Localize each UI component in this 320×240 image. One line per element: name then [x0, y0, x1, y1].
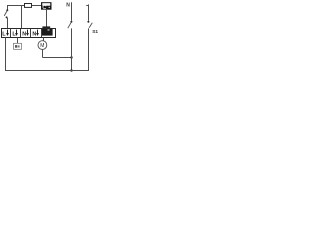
svg-text:M: M: [40, 43, 44, 49]
node switch S1 pole b upper: [87, 21, 89, 23]
fuse F1: [25, 4, 32, 8]
wire branch to terminal L2: [21, 6, 23, 29]
wire meter to plug cell: [46, 10, 48, 27]
wire bottom rail: [5, 70, 89, 72]
node switch Q upper terminal: [6, 9, 8, 11]
switch Q blade: [4, 11, 7, 16]
background: [0, 0, 100, 77]
plug P1 top bar: [42, 26, 50, 28]
control box A1: [14, 43, 22, 49]
node switch Q lower terminal: [6, 16, 8, 18]
arrow terminal 4: [37, 30, 39, 34]
svg-text:S1: S1: [92, 29, 98, 35]
svg-text:N: N: [66, 2, 70, 8]
plug P1 body (dark cell): [42, 29, 53, 36]
wire N rail upper: [71, 2, 73, 21]
arrow terminal 1: [7, 30, 9, 34]
wire L rail upper with stub: [86, 4, 88, 20]
wire top horizontal L feed: [7, 5, 41, 7]
meter U1 (dark device box): [41, 2, 52, 10]
meter U1 display window: [42, 3, 50, 6]
meter U1 dial glyph: [43, 5, 46, 8]
wire terminal 2 to control box: [17, 38, 19, 44]
svg-text:N: N: [22, 31, 26, 37]
arrow terminal 3: [27, 30, 29, 34]
control box A1 glyph: [15, 45, 17, 48]
wire riser from terminal 1 to bottom rail: [5, 38, 7, 71]
node switch S1 pole a upper: [70, 21, 72, 23]
wire motor to N rail: [43, 49, 72, 57]
wire terminal to motor: [43, 38, 45, 41]
terminal divider 1: [10, 29, 12, 38]
terminal divider 3: [30, 29, 32, 38]
switch S1 pole b blade: [89, 23, 92, 28]
svg-text:N: N: [32, 31, 36, 37]
arrow terminal 2: [16, 30, 18, 34]
terminal divider 2: [20, 29, 22, 38]
wire N rail lower: [71, 28, 73, 70]
terminal divider 4: [41, 29, 43, 38]
switch S1 pole a blade: [68, 22, 71, 28]
wire left rail lower: [7, 18, 9, 29]
node motor return joins N rail: [70, 56, 72, 58]
wire left rail upper: [7, 5, 9, 10]
wire L rail lower: [88, 28, 90, 71]
motor M1: [38, 41, 47, 50]
node N rail joins bottom rail: [70, 69, 72, 71]
terminal box X1: [2, 29, 56, 38]
